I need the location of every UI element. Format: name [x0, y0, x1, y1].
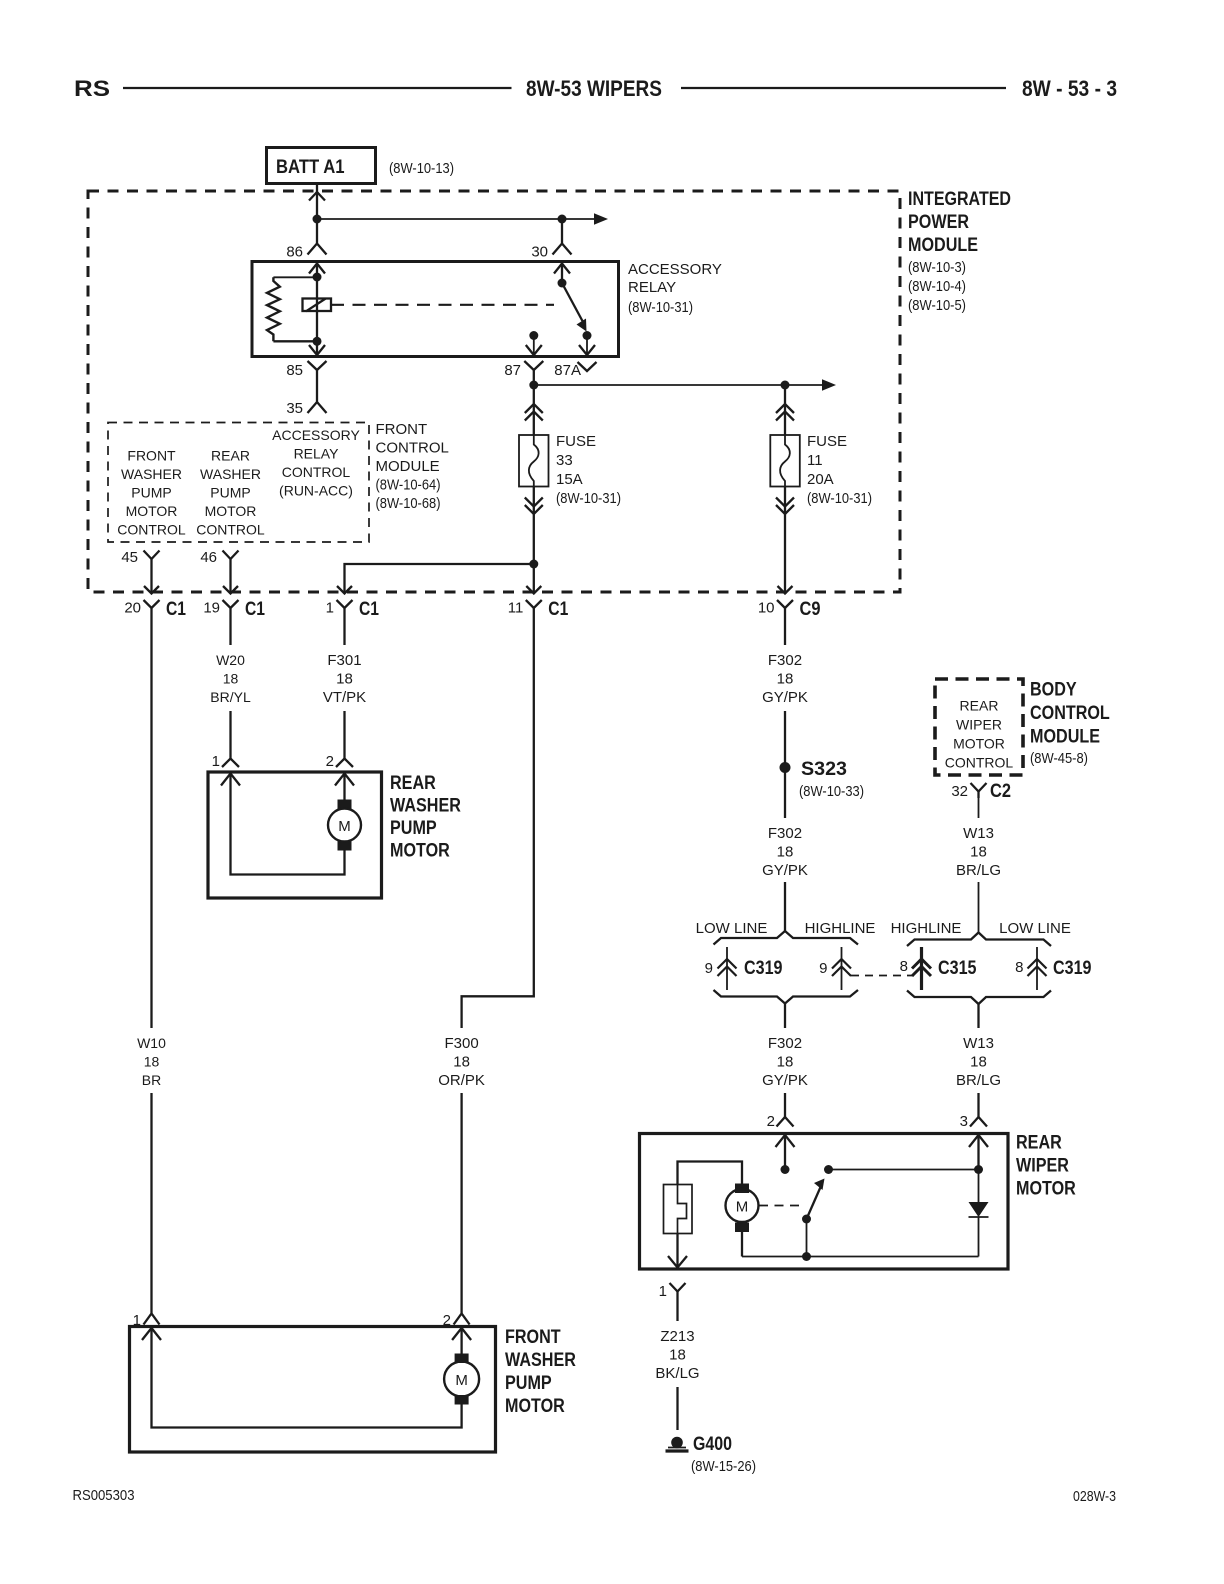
terminal 46	[223, 551, 239, 560]
terminal 86	[308, 244, 327, 255]
front control module dashed box	[108, 423, 369, 543]
svg-text:15A: 15A	[556, 471, 583, 488]
svg-text:8W - 53 - 3: 8W - 53 - 3	[1022, 76, 1117, 101]
svg-text:CONTROL: CONTROL	[376, 440, 449, 457]
svg-text:WIPER: WIPER	[956, 717, 1002, 733]
svg-text:W10: W10	[137, 1035, 166, 1051]
svg-text:MODULE: MODULE	[1030, 727, 1100, 748]
svg-text:19: 19	[203, 600, 220, 617]
svg-text:MOTOR: MOTOR	[953, 736, 1005, 752]
fuse 11	[770, 435, 800, 487]
relay pin 87A exit arrow	[579, 345, 595, 355]
wire ground rail	[742, 1256, 979, 1258]
wire feed 87 to fuse11	[534, 384, 822, 386]
brace bottom right pair	[907, 991, 1051, 1005]
svg-text:87: 87	[504, 362, 521, 379]
wire W10 lower	[150, 1093, 152, 1313]
wire rear washer internal	[231, 774, 345, 875]
svg-text:86: 86	[286, 244, 303, 261]
boundary crossing arrow up	[309, 192, 325, 201]
terminal 2 rear wiper	[777, 1117, 794, 1127]
relay pin 87 exit arrow	[526, 345, 542, 355]
svg-text:(8W-10-31): (8W-10-31)	[807, 490, 872, 507]
svg-text:REAR: REAR	[390, 773, 436, 794]
svg-text:BODY: BODY	[1030, 680, 1077, 701]
inline connector chevrons above fuse 11	[776, 404, 794, 413]
arrow bus continues right	[594, 213, 608, 225]
svg-text:35: 35	[286, 400, 303, 417]
svg-text:F302: F302	[768, 652, 802, 669]
wire pin 2 to brush	[784, 1135, 786, 1166]
svg-text:FRONT: FRONT	[127, 448, 176, 464]
svg-text:C1: C1	[548, 599, 568, 620]
svg-text:45: 45	[121, 549, 138, 566]
svg-text:CONTROL: CONTROL	[945, 755, 1014, 771]
svg-text:MOTOR: MOTOR	[505, 1396, 565, 1417]
svg-text:2: 2	[326, 753, 334, 770]
svg-text:(8W-10-68): (8W-10-68)	[376, 495, 441, 512]
svg-text:(8W-10-64): (8W-10-64)	[376, 477, 441, 494]
svg-text:HIGHLINE: HIGHLINE	[891, 920, 962, 937]
node contact 87	[529, 331, 538, 340]
inline connector chevrons below fuse 33	[525, 498, 543, 507]
wire F301 upper	[343, 619, 345, 645]
resistor relay coil winding	[273, 276, 317, 278]
svg-text:(RUN-ACC): (RUN-ACC)	[279, 483, 353, 499]
svg-text:CONTROL: CONTROL	[196, 522, 265, 538]
svg-text:32: 32	[951, 783, 968, 800]
wire fuse 33 branch	[533, 385, 535, 435]
wire F300 from 11 C1	[462, 619, 534, 1028]
boundary arrow 10 C9	[778, 586, 793, 594]
svg-text:BR/LG: BR/LG	[956, 862, 1001, 879]
svg-text:F302: F302	[768, 1035, 802, 1052]
svg-text:RELAY: RELAY	[294, 446, 340, 462]
accessory relay box	[252, 262, 619, 357]
node fuse 11 tap	[781, 381, 790, 390]
svg-text:Z213: Z213	[660, 1328, 694, 1345]
connector 9 highline	[841, 947, 843, 990]
svg-text:30: 30	[531, 244, 548, 261]
svg-text:FUSE: FUSE	[556, 433, 596, 450]
terminal 3 rear wiper	[970, 1117, 987, 1127]
svg-text:BR: BR	[142, 1072, 161, 1088]
svg-text:HIGHLINE: HIGHLINE	[805, 920, 876, 937]
node bus at pin 30	[558, 215, 567, 224]
node batt bus junction	[313, 215, 322, 224]
ground G400	[671, 1437, 683, 1449]
dashed actuating link	[331, 304, 554, 306]
wire pin 3 drop	[977, 1135, 979, 1170]
brace bottom left pair	[714, 990, 859, 1004]
rear washer pump motor box	[208, 772, 382, 898]
svg-text:VT/PK: VT/PK	[323, 689, 366, 706]
svg-text:F301: F301	[327, 652, 361, 669]
svg-text:PUMP: PUMP	[505, 1373, 552, 1394]
brace top right pair	[907, 933, 1051, 947]
svg-text:GY/PK: GY/PK	[762, 689, 808, 706]
svg-text:BATT A1: BATT A1	[276, 157, 345, 178]
terminal 1 rear washer	[222, 759, 239, 768]
node ground rail	[802, 1252, 811, 1261]
wire branch to 1 C1	[345, 564, 534, 592]
header rule left	[123, 87, 512, 89]
svg-text:C1: C1	[166, 599, 186, 620]
svg-text:MOTOR: MOTOR	[205, 503, 257, 519]
svg-text:(8W-15-26): (8W-15-26)	[691, 1458, 756, 1475]
wire pole to ground rail	[806, 1219, 808, 1257]
svg-text:9: 9	[819, 960, 827, 977]
wire pin2 to motor	[343, 774, 345, 801]
svg-text:WASHER: WASHER	[121, 466, 182, 482]
svg-text:REAR: REAR	[211, 448, 250, 464]
terminal 35	[308, 402, 327, 413]
svg-text:ACCESSORY: ACCESSORY	[272, 427, 360, 443]
svg-text:33: 33	[556, 452, 573, 469]
svg-text:REAR: REAR	[960, 698, 999, 714]
svg-text:1: 1	[326, 600, 334, 617]
wire below fuse 33	[533, 487, 535, 593]
svg-text:MOTOR: MOTOR	[1016, 1179, 1076, 1200]
node coil top	[313, 273, 322, 282]
rear wiper pin 2 entry arrow	[776, 1135, 795, 1147]
connector 10 C9	[777, 600, 793, 608]
svg-text:18: 18	[144, 1054, 160, 1070]
wire park contact rail	[829, 1169, 979, 1171]
svg-text:1: 1	[659, 1283, 667, 1300]
wire front washer internal	[152, 1328, 462, 1428]
boundary arrow pin46	[223, 586, 238, 594]
svg-text:BK/LG: BK/LG	[655, 1365, 699, 1382]
wire pin 30 drop	[561, 219, 563, 243]
wire switch common	[561, 264, 563, 284]
connector 9 C319 low line	[726, 947, 728, 990]
terminal 87A unused	[578, 362, 597, 371]
terminal 1 rear wiper	[670, 1283, 686, 1292]
svg-text:REAR: REAR	[1016, 1133, 1062, 1154]
boundary arrow pin45	[144, 586, 159, 594]
relay pin 86 entry arrow	[309, 264, 325, 274]
svg-text:RS005303: RS005303	[73, 1487, 135, 1504]
svg-text:BR/YL: BR/YL	[210, 689, 251, 705]
svg-text:8: 8	[900, 958, 908, 975]
front washer pin 2 entry arrow	[452, 1328, 471, 1340]
svg-text:18: 18	[777, 1054, 794, 1071]
battery feed box BATT A1	[267, 148, 376, 184]
wire F302 to splice	[784, 711, 786, 767]
connector 8 C315 highline	[920, 947, 923, 990]
wire F302 below splice	[784, 768, 786, 819]
circuit breaker rear wiper	[664, 1185, 693, 1234]
svg-text:8W-53 WIPERS: 8W-53 WIPERS	[526, 76, 662, 101]
svg-text:POWER: POWER	[908, 212, 969, 233]
wire W10	[150, 619, 152, 1028]
svg-text:(8W-45-8): (8W-45-8)	[1030, 750, 1088, 767]
connector 20 C1	[144, 600, 160, 608]
inline connector chevrons below fuse 11	[776, 498, 794, 507]
connector 19 C1	[223, 600, 239, 608]
wire W13 below braces	[977, 1004, 979, 1028]
svg-text:11: 11	[508, 600, 524, 617]
connector 1 C1	[337, 600, 353, 608]
terminal 2 rear washer	[336, 759, 353, 768]
rear wiper pin 3 entry arrow	[969, 1135, 988, 1147]
body control module dashed box	[935, 679, 1023, 775]
svg-text:85: 85	[286, 362, 303, 379]
connector 32 C2	[971, 783, 987, 792]
terminal 45	[144, 551, 160, 560]
svg-text:M: M	[338, 818, 351, 835]
svg-text:2: 2	[767, 1113, 775, 1130]
svg-text:PUMP: PUMP	[210, 485, 250, 501]
svg-text:18: 18	[223, 671, 239, 687]
node 87 feed split	[529, 381, 538, 390]
wire 87A contact to box edge	[586, 336, 588, 356]
svg-text:(8W-10-13): (8W-10-13)	[389, 160, 454, 177]
svg-text:GY/PK: GY/PK	[762, 862, 808, 879]
svg-text:LOW LINE: LOW LINE	[696, 920, 768, 937]
svg-text:18: 18	[970, 1054, 987, 1071]
svg-text:C1: C1	[359, 599, 379, 620]
svg-text:3: 3	[960, 1113, 968, 1130]
wire W20 lower	[229, 711, 231, 759]
svg-text:BR/LG: BR/LG	[956, 1072, 1001, 1089]
svg-text:RS: RS	[74, 76, 110, 101]
node branch to 1 C1	[529, 560, 538, 569]
diode rear wiper	[978, 1170, 980, 1203]
wire bus to pin 30	[317, 218, 594, 220]
wire F302 to rear wiper motor	[784, 1093, 786, 1117]
svg-text:028W-3: 028W-3	[1073, 1488, 1116, 1505]
splice S323	[780, 762, 791, 773]
svg-text:ACCESSORY: ACCESSORY	[628, 261, 722, 278]
rear washer pin 2 entry arrow	[335, 774, 354, 786]
switch blade to 87A	[562, 283, 583, 322]
brace top left pair	[714, 931, 859, 945]
connector 11 C1	[526, 600, 542, 608]
node switch pole	[802, 1215, 811, 1224]
wire batt A1 down into IPM	[316, 184, 318, 244]
wire 87 contact to box edge	[533, 336, 535, 356]
svg-text:M: M	[736, 1199, 749, 1216]
svg-text:G400: G400	[693, 1434, 732, 1455]
svg-text:S323: S323	[801, 759, 847, 780]
svg-text:F300: F300	[444, 1035, 478, 1052]
wire F302 to brace	[784, 882, 786, 932]
motor M rear wiper	[735, 1184, 749, 1194]
node park contact	[824, 1165, 833, 1174]
integrated power module dashed boundary	[88, 191, 900, 592]
rear washer pin 1 entry arrow	[221, 774, 240, 786]
wire Z213 lower	[676, 1387, 678, 1430]
svg-text:(8W-10-31): (8W-10-31)	[556, 490, 621, 507]
wire pin2 to motor	[460, 1328, 462, 1354]
terminal 87	[524, 361, 543, 370]
relay coil core symbol	[303, 299, 332, 312]
svg-text:11: 11	[807, 452, 823, 469]
inline connector chevrons above fuse 33	[525, 404, 543, 413]
svg-text:FRONT: FRONT	[376, 421, 428, 438]
wire motor bottom to rail	[741, 1232, 743, 1257]
boundary arrow 11 C1	[526, 586, 541, 594]
connector 8 C319 low line	[1036, 947, 1038, 990]
svg-text:INTEGRATED: INTEGRATED	[908, 189, 1011, 210]
terminal 1 front washer	[144, 1314, 160, 1325]
fuse 33	[519, 435, 549, 487]
svg-text:W20: W20	[216, 652, 245, 668]
node coil bottom	[313, 337, 322, 346]
svg-text:MOTOR: MOTOR	[390, 841, 450, 862]
svg-text:RELAY: RELAY	[628, 279, 676, 296]
svg-text:1: 1	[212, 753, 220, 770]
svg-text:(8W-10-33): (8W-10-33)	[799, 783, 864, 800]
wire relay coil vertical	[316, 264, 318, 356]
node switch pivot	[558, 279, 567, 288]
wire breaker to pin 1	[676, 1234, 678, 1268]
svg-text:WASHER: WASHER	[200, 466, 261, 482]
wire W13 upper	[978, 798, 980, 818]
svg-text:WASHER: WASHER	[505, 1350, 576, 1371]
svg-text:C315: C315	[938, 958, 977, 979]
svg-text:M: M	[455, 1372, 468, 1389]
svg-text:C2: C2	[990, 781, 1011, 802]
wire F301 lower	[343, 711, 345, 759]
relay pin 85 exit arrow	[309, 345, 325, 355]
svg-text:C319: C319	[1053, 958, 1092, 979]
wire fuse 11 branch	[784, 385, 786, 435]
svg-text:CONTROL: CONTROL	[1030, 703, 1110, 724]
wire W20 upper	[229, 619, 231, 645]
wire Z213 upper	[676, 1299, 678, 1321]
wire F302 upper	[784, 619, 786, 645]
svg-text:W13: W13	[963, 1035, 994, 1052]
svg-text:18: 18	[336, 671, 353, 688]
arrow feed continues right	[822, 379, 836, 391]
dashed link between variants	[851, 975, 914, 977]
svg-text:C319: C319	[744, 958, 783, 979]
svg-text:(8W-10-5): (8W-10-5)	[908, 297, 966, 314]
svg-text:PUMP: PUMP	[390, 818, 437, 839]
svg-text:8: 8	[1015, 959, 1023, 976]
motor M front washer	[455, 1354, 469, 1364]
svg-text:46: 46	[200, 549, 217, 566]
park switch blade	[807, 1186, 822, 1219]
front washer pin 1 entry arrow	[142, 1328, 161, 1340]
svg-text:87A: 87A	[554, 362, 581, 379]
svg-text:C1: C1	[245, 599, 265, 620]
svg-text:WIPER: WIPER	[1016, 1156, 1069, 1177]
svg-text:CONTROL: CONTROL	[282, 464, 351, 480]
svg-text:20: 20	[124, 600, 141, 617]
svg-text:F302: F302	[768, 825, 802, 842]
wire W13 to brace	[978, 882, 980, 933]
dashed motor link	[759, 1205, 800, 1207]
terminal 85	[308, 361, 327, 370]
wire below fuse 11	[784, 487, 786, 593]
terminal 30	[553, 244, 572, 255]
node contact 87A	[583, 331, 592, 340]
svg-text:GY/PK: GY/PK	[762, 1072, 808, 1089]
svg-text:18: 18	[453, 1054, 470, 1071]
svg-text:18: 18	[970, 844, 987, 861]
wire W13 to rear wiper motor	[977, 1093, 979, 1117]
svg-text:10: 10	[758, 600, 775, 617]
svg-text:FRONT: FRONT	[505, 1327, 561, 1348]
svg-text:CONTROL: CONTROL	[117, 522, 186, 538]
svg-text:9: 9	[705, 960, 713, 977]
rear wiper motor box	[640, 1134, 1009, 1270]
svg-text:18: 18	[777, 844, 794, 861]
svg-text:OR/PK: OR/PK	[438, 1072, 485, 1089]
svg-text:WASHER: WASHER	[390, 796, 461, 817]
wire F302 below braces	[784, 1004, 786, 1029]
svg-text:MODULE: MODULE	[376, 458, 440, 475]
wire F300 lower	[460, 1093, 462, 1313]
svg-text:LOW LINE: LOW LINE	[999, 920, 1071, 937]
svg-text:(8W-10-4): (8W-10-4)	[908, 278, 966, 295]
node brush feed	[781, 1165, 790, 1174]
svg-text:18: 18	[777, 671, 794, 688]
relay pin 30 entry arrow	[554, 264, 570, 274]
svg-text:W13: W13	[963, 825, 994, 842]
motor M rear washer	[338, 800, 352, 810]
svg-text:MODULE: MODULE	[908, 235, 978, 256]
svg-text:PUMP: PUMP	[131, 485, 171, 501]
node park switch feed	[974, 1165, 983, 1174]
svg-text:(8W-10-3): (8W-10-3)	[908, 259, 966, 276]
svg-text:18: 18	[669, 1347, 686, 1364]
terminal 2 front washer	[454, 1314, 470, 1325]
svg-text:(8W-10-31): (8W-10-31)	[628, 299, 693, 316]
svg-text:FUSE: FUSE	[807, 433, 847, 450]
boundary arrow 1 C1	[337, 586, 352, 594]
svg-text:20A: 20A	[807, 471, 834, 488]
svg-text:MOTOR: MOTOR	[126, 503, 178, 519]
wire motor top feed	[678, 1162, 743, 1185]
rear wiper pin 1 exit arrow	[668, 1256, 687, 1268]
svg-text:C9: C9	[800, 599, 821, 620]
front washer pump motor box	[130, 1327, 496, 1453]
header rule right	[681, 87, 1006, 89]
